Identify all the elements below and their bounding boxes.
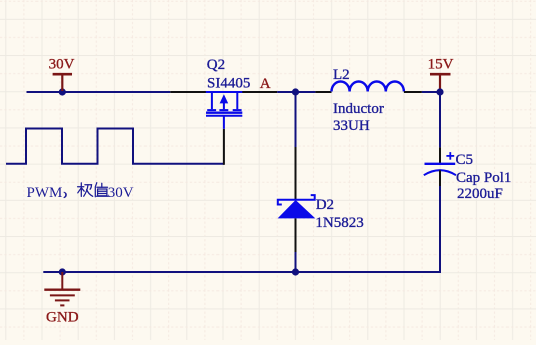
- svg-text:GND: GND: [46, 310, 79, 326]
- svg-text:Inductor: Inductor: [333, 101, 384, 117]
- svg-text:30V: 30V: [49, 56, 75, 72]
- svg-text:2200uF: 2200uF: [457, 186, 503, 202]
- wire D2 anode to ground rail: [295, 252, 297, 272]
- pin C5 negative: [439, 170, 441, 186]
- pin Q2 source: [242, 91, 277, 93]
- wire 15V node vertical: [439, 92, 441, 147]
- PWM square wave: [6, 129, 224, 164]
- pin C5 positive: [439, 147, 441, 163]
- svg-text:15V: 15V: [428, 56, 454, 72]
- svg-text:SI4405: SI4405: [207, 75, 250, 91]
- svg-text:33UH: 33UH: [333, 118, 370, 134]
- junction 15V node: [436, 88, 443, 95]
- wire L2 to 15V node: [422, 91, 440, 93]
- inductor L2: [332, 81, 404, 91]
- svg-text:Cap Pol1: Cap Pol1: [456, 170, 511, 186]
- diode D2: [278, 195, 316, 218]
- wire node A horizontal: [277, 91, 315, 93]
- power port 15V: [430, 74, 451, 91]
- pin Q2 gate: [223, 129, 225, 165]
- junction ground at GND: [59, 268, 66, 275]
- svg-text:Q2: Q2: [207, 57, 225, 73]
- pin L2 2: [404, 91, 422, 93]
- svg-text:30V: 30V: [108, 185, 134, 201]
- svg-text:C5: C5: [456, 152, 474, 168]
- power port 30V: [53, 74, 72, 91]
- svg-text:1N5823: 1N5823: [315, 215, 363, 231]
- pin D2 cathode: [295, 147, 297, 200]
- pin Q2 drain: [170, 91, 206, 93]
- svg-text:D2: D2: [316, 197, 334, 213]
- svg-text:A: A: [260, 76, 271, 92]
- pin D2 anode: [295, 218, 297, 252]
- transistor Q2: [206, 92, 243, 129]
- wire node A vertical: [295, 92, 297, 147]
- capacitor C5: [424, 152, 456, 175]
- junction node A: [292, 88, 299, 95]
- junction 30V node: [59, 88, 66, 95]
- svg-text:PWM: PWM: [27, 185, 63, 201]
- svg-text:L2: L2: [333, 67, 350, 83]
- pin L2 1: [315, 91, 331, 93]
- wire ground rail: [43, 271, 441, 273]
- wire C5 to ground rail: [439, 186, 441, 272]
- junction D2 anode node: [292, 268, 299, 275]
- ground GND: [44, 272, 80, 305]
- wire top rail left: [27, 91, 171, 93]
- label PWM，极值30V: [27, 183, 134, 201]
